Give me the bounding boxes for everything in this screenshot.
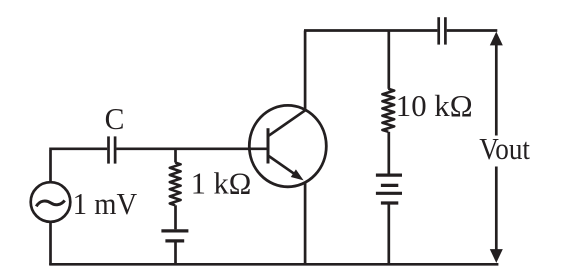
svg-text:10 kΩ: 10 kΩ — [396, 88, 473, 123]
svg-text:C: C — [105, 101, 125, 136]
svg-text:1 mV: 1 mV — [73, 186, 138, 221]
svg-text:1 kΩ: 1 kΩ — [191, 166, 252, 201]
svg-text:Vout: Vout — [479, 131, 530, 166]
